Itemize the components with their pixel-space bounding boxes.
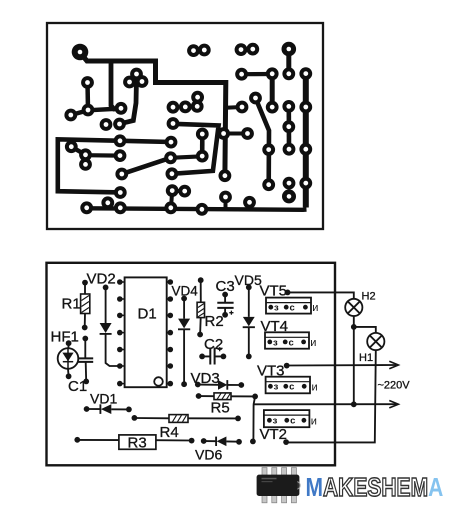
wire main supply trace from big pad across top	[82, 55, 226, 176]
PCB pad	[83, 78, 92, 87]
PCB pad	[284, 69, 293, 78]
PCB pad	[200, 46, 209, 55]
PCB pad	[237, 70, 246, 79]
wire diagonal trace middle	[256, 98, 270, 185]
svg-text:c: c	[290, 416, 295, 427]
PCB pad	[198, 205, 207, 214]
svg-text:VD1: VD1	[90, 391, 117, 407]
svg-text:~220V: ~220V	[378, 380, 411, 392]
resistor R1	[84, 283, 86, 328]
wire C-shaped trace structure left	[58, 139, 171, 192]
PCB pad	[103, 198, 112, 207]
PCB pad	[264, 145, 273, 154]
svg-text:VD5: VD5	[235, 272, 262, 288]
wire horizontal link	[86, 153, 121, 158]
PCB pad	[116, 136, 125, 145]
diode VD2	[105, 287, 107, 323]
PCB pad	[219, 129, 228, 138]
arrow head line2	[389, 401, 398, 408]
node VD1 left	[84, 406, 90, 412]
logo chip notch	[297, 482, 300, 490]
wire right rail vertical	[303, 74, 309, 208]
PCB pad	[167, 138, 176, 147]
node wire end	[250, 439, 256, 445]
logo chip icon body	[257, 475, 300, 496]
wire pad bump stub	[106, 203, 110, 209]
wire H2 bottom to junction and to H1	[354, 316, 376, 333]
diode VD6	[204, 440, 216, 442]
svg-text:з: з	[274, 382, 279, 393]
node VD1 right	[126, 407, 132, 413]
node VD6 right	[236, 439, 242, 445]
svg-text:VT4: VT4	[261, 318, 289, 335]
PCB pad	[193, 93, 202, 102]
resistor R2	[199, 280, 202, 334]
PCB pad	[248, 45, 257, 54]
PCB pad	[102, 120, 111, 129]
logo chip icon bottom pins	[262, 496, 296, 503]
wire output line 2 with junction	[254, 403, 397, 405]
wire bottom ground rail	[87, 208, 307, 210]
node VD3 right	[238, 382, 244, 388]
svg-text:c: c	[289, 382, 294, 393]
wire pad stub	[248, 202, 252, 209]
PCB pad	[193, 102, 202, 111]
node VD2 top	[103, 285, 109, 291]
node junction on line2	[351, 401, 357, 407]
svg-text:VD2: VD2	[87, 271, 116, 288]
svg-text:и: и	[310, 337, 316, 349]
svg-text:R2: R2	[205, 313, 224, 330]
PCB pad	[168, 186, 177, 195]
wire vertical trace pad pair	[85, 83, 90, 111]
PCB pad	[81, 160, 90, 169]
node VT5 output	[285, 290, 291, 296]
pin dots D1 right	[167, 279, 173, 386]
PCB pad	[221, 193, 230, 202]
wire stem of filled pad	[286, 52, 291, 74]
node VD5 top	[246, 284, 252, 290]
node H2/H1 junction	[351, 324, 357, 330]
PCB pad	[115, 120, 124, 129]
node R3 left	[74, 437, 80, 443]
wire VT3 output line 1	[287, 364, 397, 367]
diode VD4	[183, 299, 185, 385]
wire VT5 output to lamp H2	[288, 292, 354, 298]
PCB pad	[301, 145, 310, 154]
PCB pad	[301, 179, 310, 188]
capacitor C2 polarized	[202, 355, 223, 357]
node C2 left	[199, 354, 205, 360]
wire horizontal trace	[242, 72, 273, 76]
svg-text:MAKESHEMA: MAKESHEMA	[306, 473, 444, 502]
PCB layout border frame	[47, 23, 323, 229]
svg-text:VT2: VT2	[260, 426, 288, 443]
PCB pad	[117, 104, 126, 113]
PCB pad	[243, 129, 252, 138]
node VD4 top	[181, 296, 187, 302]
wire junction rail down to line2	[353, 327, 355, 404]
transistor VT2 box	[264, 410, 310, 427]
pin dots D1 left	[117, 279, 125, 386]
wire U-shaped trace right	[172, 124, 219, 174]
node R3 right	[189, 438, 195, 444]
PCB pad	[117, 170, 126, 179]
node R2 bottom	[197, 332, 203, 338]
wire trace from pad cluster down-left	[120, 78, 137, 124]
svg-text:VD4: VD4	[172, 284, 199, 299]
node VD3 left	[195, 382, 201, 388]
PCB big filled pad	[72, 44, 89, 61]
node C3 top	[222, 292, 228, 298]
PCB pad	[169, 119, 178, 128]
logo chip icon top pins	[262, 468, 296, 476]
PCB pad	[251, 94, 260, 103]
PCB pad	[301, 103, 310, 112]
PCB pad	[125, 78, 134, 87]
schematic border frame	[47, 263, 336, 466]
svg-text:R3: R3	[128, 435, 147, 452]
wire pad stub	[224, 197, 228, 209]
svg-text:R5: R5	[211, 400, 230, 417]
PCB pad	[66, 111, 75, 120]
svg-text:и: и	[312, 381, 318, 393]
svg-text:C2: C2	[204, 336, 223, 353]
lamp H1	[367, 333, 384, 350]
PCB pad	[284, 102, 293, 111]
diode VD5	[248, 287, 250, 356]
PCB pad	[116, 188, 125, 197]
svg-text:H2: H2	[362, 291, 376, 303]
wire vertical trace	[270, 74, 275, 107]
svg-text:и: и	[312, 302, 318, 314]
PCB pad	[168, 169, 177, 178]
wire branch trace at x=111 down to pad	[111, 62, 121, 109]
node HF1 top	[66, 340, 72, 346]
wire VT2 output to H1 bottom	[286, 350, 376, 442]
wire vertical trace x=289	[286, 106, 291, 149]
lamp H2	[345, 299, 362, 316]
logo text MAKESHEMA	[306, 473, 444, 502]
diode VD3	[198, 384, 218, 386]
capacitor C3 polarized	[224, 295, 226, 303]
resistor R4	[134, 417, 238, 419]
svg-text:R1: R1	[62, 296, 81, 313]
svg-text:HF1: HF1	[51, 329, 79, 346]
svg-text:VD3: VD3	[191, 370, 220, 387]
PCB pad	[198, 152, 207, 161]
svg-text:H1: H1	[359, 352, 373, 364]
PCB pad	[67, 142, 76, 151]
svg-text:C1: C1	[68, 378, 87, 395]
PCB pad	[268, 103, 277, 112]
PCB pad	[166, 203, 175, 212]
wire branch to pad	[226, 105, 242, 110]
wire pad pair link	[172, 189, 185, 193]
svg-text:з: з	[273, 337, 278, 348]
PCB pad	[264, 180, 273, 189]
node R1 bottom	[82, 325, 88, 331]
node VT3 output	[284, 363, 290, 369]
capacitor C1	[84, 339, 86, 359]
PCB pad	[116, 151, 125, 160]
transistor VT4 box	[265, 332, 309, 348]
PCB pad	[81, 150, 90, 159]
transistor VT5 box	[266, 298, 311, 314]
svg-text:з: з	[273, 416, 278, 427]
PCB filled pad	[282, 189, 296, 203]
node C1 bottom	[83, 379, 89, 385]
svg-text:VT5: VT5	[260, 283, 288, 300]
PCB pad	[180, 187, 189, 196]
PCB pad	[166, 153, 175, 162]
PCB pad	[268, 69, 277, 78]
svg-text:c: c	[290, 303, 295, 314]
PCB pad	[132, 70, 141, 79]
op-amp D1 IC box	[125, 277, 167, 387]
arrow head line1	[389, 361, 398, 368]
node C2 right	[221, 354, 227, 360]
PCB pad	[284, 122, 293, 131]
svg-text:R4: R4	[160, 424, 179, 441]
PCB pad	[198, 130, 207, 139]
node R1 top	[82, 280, 88, 286]
PCB pad	[138, 77, 147, 86]
node R4 left	[132, 415, 138, 421]
PCB pad	[237, 45, 246, 54]
PCB pad	[169, 103, 178, 112]
wire vertical link	[200, 134, 205, 156]
svg-text:VD6: VD6	[195, 447, 222, 463]
node HF1 bottom	[66, 373, 72, 379]
svg-text:c: c	[289, 337, 294, 348]
wire pad stub vertical	[171, 191, 172, 208]
node C3 bottom	[222, 312, 228, 318]
PCB pad	[238, 103, 247, 112]
wire long diagonal trace	[122, 158, 171, 174]
wire diagonal pad link	[71, 147, 85, 165]
PCB pad	[181, 103, 190, 112]
svg-text:C3: C3	[216, 278, 235, 295]
node R4 right	[235, 416, 241, 422]
PCB pad	[285, 145, 294, 154]
sound emitter HF1	[58, 348, 79, 369]
svg-text:D1: D1	[138, 306, 157, 323]
transistor VT3 box	[266, 377, 310, 394]
wire horizontal link	[171, 156, 203, 158]
diode VD1	[87, 408, 101, 410]
PCB pad	[84, 106, 93, 115]
PCB pad	[285, 179, 294, 188]
node R5 right	[252, 394, 258, 400]
svg-text:и: и	[311, 415, 317, 427]
node VD5 bottom	[246, 354, 252, 360]
PCB pad	[189, 46, 198, 55]
PCB pad	[82, 203, 91, 212]
node VT2 output	[283, 439, 289, 445]
resistor R5	[199, 395, 256, 397]
resistor R3	[77, 439, 191, 442]
PCB filled pad	[282, 42, 297, 57]
PCB pad	[245, 198, 254, 207]
wire trace connecting three left pads	[71, 109, 121, 116]
PCB pad	[301, 69, 310, 78]
wire branch to pad	[224, 132, 248, 136]
node VD4 bottom	[181, 381, 187, 387]
PCB pad	[116, 203, 125, 212]
node R2 top	[198, 277, 204, 283]
node C1 top	[82, 336, 88, 342]
svg-text:VT3: VT3	[257, 363, 285, 380]
PCB pad	[221, 171, 230, 180]
node VD6 left	[201, 438, 207, 444]
svg-text:з: з	[274, 303, 279, 314]
wire from R5 down to output line and down to VD6 area	[253, 396, 255, 441]
node R5 left	[196, 393, 202, 399]
